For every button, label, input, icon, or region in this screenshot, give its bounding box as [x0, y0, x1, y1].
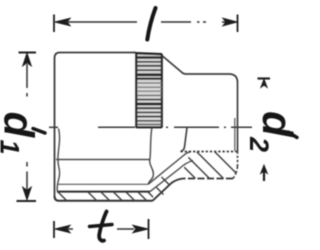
- label t: [90, 212, 113, 241]
- dimension t: left tick: [53, 221, 55, 238]
- dimension l: left arrow: [55, 18, 70, 25]
- label l: [147, 8, 155, 40]
- dimension l: line segments: [66, 21, 236, 23]
- left break line: [57, 129, 60, 192]
- d2 ascender extension: [288, 132, 297, 138]
- knurl band: [136, 53, 162, 128]
- centre line: [49, 126, 252, 128]
- dimension d2: bottom arrow: [261, 166, 267, 174]
- dimension d2: top tick: [258, 77, 271, 79]
- svg-text:2: 2: [244, 136, 274, 152]
- inner line A: [57, 183, 148, 185]
- dimension l: left extension tick: [53, 15, 55, 33]
- hex flat line: [56, 159, 150, 161]
- hatching of bottom wall strip: [52, 186, 162, 206]
- svg-text:1: 1: [0, 140, 25, 155]
- hatching of drive-end block: [169, 152, 243, 180]
- dimension d1: top tick: [19, 52, 37, 54]
- bottom right corner: [233, 165, 238, 179]
- cone outer edge: [153, 179, 185, 201]
- square hole left edge: [181, 128, 188, 152]
- hatch rung in cone strip lower: [157, 188, 164, 195]
- bottom edge: [55, 196, 153, 201]
- svg-text:d: d: [0, 112, 43, 139]
- label d2: [244, 111, 301, 152]
- hatch rung in cone strip upper: [162, 177, 170, 185]
- socket body outline: [55, 53, 137, 197]
- right face inner chamfer line: [234, 118, 236, 151]
- dimension d1: bottom arrow: [23, 188, 31, 200]
- drive section bottom edge: [184, 178, 233, 180]
- inner bore end line B: [57, 191, 150, 193]
- drive section top edge: [186, 74, 238, 83]
- square hole bottom edge: [181, 151, 237, 153]
- chamfer from knurl to drive section: [163, 56, 187, 74]
- dimension l: right arrow: [223, 18, 237, 25]
- right break line: [148, 128, 153, 184]
- cone inner line A2: [148, 152, 190, 185]
- cone inner line B2: [150, 161, 193, 192]
- dimension t: right tick: [148, 219, 150, 239]
- dimension d1: line lower: [26, 162, 28, 196]
- dimension d1: bottom tick: [17, 200, 37, 202]
- dimension d1: top arrow: [23, 54, 31, 66]
- label d1: [0, 112, 43, 155]
- right face edge: [237, 83, 239, 152]
- dimension d2: top arrow: [261, 80, 267, 88]
- dimension t: right arrow: [133, 225, 148, 232]
- d1 ascender extension: [33, 129, 45, 134]
- dimension t: left arrow: [55, 225, 70, 232]
- dimension t: line: [117, 228, 134, 230]
- dimension d1: line upper: [26, 64, 28, 97]
- dimension l: right extension tick: [237, 15, 239, 33]
